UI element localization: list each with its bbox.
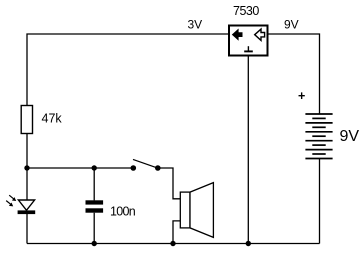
resistor 47k	[21, 106, 32, 134]
label 9V battery	[340, 128, 360, 145]
loudspeaker LS1	[180, 183, 213, 238]
node loudspeaker bottom junction	[170, 241, 175, 246]
wire regulator input to battery plus	[268, 34, 320, 114]
label plus	[298, 89, 305, 103]
svg-text:+: +	[298, 89, 305, 103]
node capacitor bottom junction	[92, 241, 97, 246]
switch S1	[131, 159, 161, 170]
svg-text:100n: 100n	[110, 204, 136, 218]
wire junction down to photodiode	[26, 168, 28, 200]
wire loudspeaker bottom to bottom rail	[173, 221, 180, 244]
battery BT1 9V	[305, 114, 332, 159]
regulator open arrow	[255, 29, 265, 40]
svg-text:47k: 47k	[42, 112, 63, 126]
node capacitor top junction	[92, 165, 97, 170]
svg-text:9V: 9V	[284, 18, 299, 32]
node regulator ground junction	[246, 241, 251, 246]
node junction left	[24, 165, 29, 170]
wire resistor bottom to junction	[26, 134, 28, 169]
wire capacitor top lead	[93, 168, 95, 200]
label 47k	[42, 112, 63, 126]
label 3V	[188, 18, 203, 32]
regulator filled arrow	[232, 29, 243, 41]
ground symbol inside regulator	[244, 46, 253, 51]
label 7530	[233, 4, 259, 18]
wire switch to loudspeaker top	[158, 168, 181, 199]
svg-text:9V: 9V	[340, 128, 360, 145]
wire battery minus to bottom rail	[319, 159, 321, 244]
wire capacitor bottom lead	[93, 213, 95, 244]
wire top-left: resistor top up and across to regulator input	[27, 34, 228, 106]
capacitor 100n	[86, 200, 104, 212]
label 9V regulator input	[284, 18, 299, 32]
regulator 7530	[229, 26, 268, 56]
svg-text:3V: 3V	[188, 18, 203, 32]
photodiode D1	[6, 195, 35, 214]
wire regulator ground pin to bottom rail	[247, 56, 249, 244]
wire middle rail to switch	[27, 167, 133, 169]
svg-text:7530: 7530	[233, 4, 259, 18]
wire photodiode to bottom rail	[26, 214, 28, 244]
wire bottom rail	[27, 243, 320, 245]
label 100n	[110, 204, 136, 218]
